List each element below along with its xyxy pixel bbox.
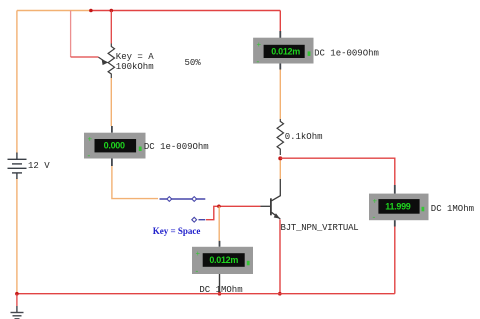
svg-text:-: - [88,151,91,160]
battery 12V [8,153,27,180]
ammeter U3 (0.012m bottom) [192,241,253,276]
node junction rail at battery [15,292,19,296]
label DC 1MOhm (meter U3) [199,285,242,295]
svg-text:0.012m: 0.012m [209,255,238,265]
svg-text:0.1kOhm: 0.1kOhm [285,132,323,142]
wire wiper branch [71,11,99,58]
potentiometer 100kOhm [99,11,115,79]
resistor 0.1kOhm [277,119,283,155]
label Key = A [116,52,154,62]
voltmeter U4 (11.999) [369,185,429,227]
wire junction to voltmeter U4 [280,158,395,185]
wire left vertical battery bottom [16,178,18,294]
wire voltmeter U4 to ground rail [394,227,396,294]
wire left vertical battery top [16,11,18,154]
wire top rail red segment [90,10,281,12]
label 100kOhm [116,62,154,72]
voltmeter U2 (0.000) [84,126,146,166]
wire bottom ground rail [17,293,395,295]
node base junction [217,205,221,209]
svg-text:+: + [373,197,378,206]
ammeter U1 (0.012m top) [253,11,313,70]
node collector junction [278,156,282,160]
svg-text:DC 1e-009Ohm: DC 1e-009Ohm [314,49,379,59]
label 12 V [28,161,50,171]
svg-text:-: - [257,57,260,66]
wire meter U2 to switch [112,166,158,199]
wire emitter to ground rail [279,220,281,294]
svg-text:BJT_NPN_VIRTUAL: BJT_NPN_VIRTUAL [281,223,359,233]
label 50% [185,58,202,68]
node junction rail at emitter [278,292,282,296]
svg-text:50%: 50% [185,58,202,68]
node junction top rail 1 [89,9,93,13]
label 0.1kOhm [285,132,323,142]
label DC 1e-009Ohm (meter U1) [314,49,379,59]
svg-text:11.999: 11.999 [385,202,411,212]
wire ammeter U1 to resistor [279,70,281,120]
node junction top rail 2 [110,9,114,13]
svg-text:Key = A: Key = A [116,52,154,62]
wire junction down to collector [279,161,281,180]
svg-text:-: - [373,213,376,222]
svg-text:DC 1MOhm: DC 1MOhm [431,204,474,214]
wire ammeter U3 to ground rail [219,274,221,294]
switch Key = Space [160,197,206,223]
ground [11,294,24,319]
label BJT_NPN_VIRTUAL [281,223,359,233]
svg-text:-: - [196,266,199,275]
svg-text:+: + [196,249,201,258]
svg-text:100kOhm: 100kOhm [116,62,154,72]
wire pot bottom to meter [110,78,112,126]
svg-text:12 V: 12 V [28,161,50,171]
svg-text:+: + [88,135,93,144]
wire switch to base junction [206,206,260,219]
transistor BJT_NPN_VIRTUAL [260,179,280,219]
label Key = Space [153,226,201,236]
wire top rail orange segment [17,10,90,12]
svg-text:Key = Space: Key = Space [153,226,201,236]
label DC 1e-009Ohm (meter U2) [144,142,209,152]
svg-text:0.012m: 0.012m [271,46,300,56]
node junction rail at U3 [218,292,222,296]
svg-text:DC 1e-009Ohm: DC 1e-009Ohm [144,142,209,152]
svg-text:0.000: 0.000 [104,141,125,151]
wire base junction down to ammeter U3 [218,206,220,241]
svg-text:+: + [257,40,262,49]
label DC 1MOhm (meter U4) [431,204,474,214]
